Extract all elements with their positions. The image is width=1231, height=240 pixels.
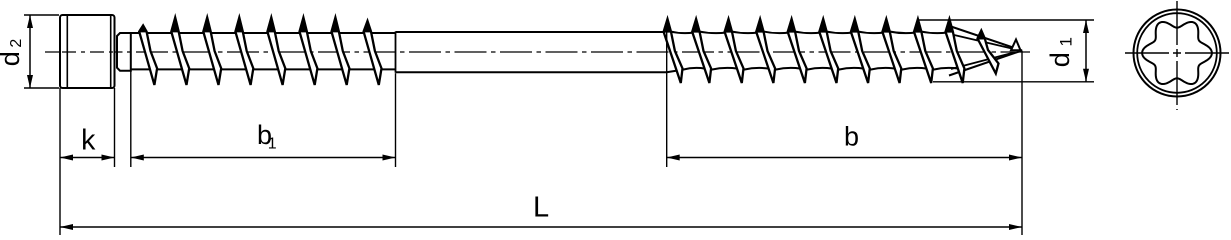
torx view inner circle (1137, 13, 1217, 93)
tip taper root bottom line (951, 53, 1014, 70)
svg-text:b: b (844, 122, 859, 152)
dimension line d1 (1085, 20, 1087, 82)
thread b flight 2 (692, 19, 711, 83)
torx recess 6-lobe profile (1142, 22, 1212, 84)
dimension line d2 (29, 15, 31, 88)
svg-text:1: 1 (1057, 37, 1076, 46)
thread b root line top (scalloped) (667, 31, 952, 33)
thread b flight 1 (664, 19, 683, 83)
centerline (screw axis) (45, 51, 1030, 53)
thread b1 end line (395, 32, 397, 73)
arrow L left (60, 224, 73, 230)
thread b flight 4 (756, 19, 775, 83)
head chamfer line left (66, 16, 68, 88)
extension line tip (b/L) (1021, 51, 1023, 236)
thread b flight 5 (788, 19, 807, 83)
arrow k right (102, 155, 115, 161)
extension line d2 bottom (24, 87, 59, 89)
thread b1 flight 2 (171, 18, 189, 85)
head chamfer line right (110, 16, 112, 88)
screw head outline (60, 15, 115, 88)
thread b flight 10 (946, 19, 965, 83)
arrow b left (667, 155, 680, 161)
extension line thread b1 end (395, 73, 397, 167)
torx crosshair vertical (1176, 1, 1178, 110)
svg-text:L: L (533, 192, 549, 224)
arrow d2 bottom (27, 75, 33, 88)
svg-text:d: d (0, 51, 25, 66)
centerline across head (62, 51, 114, 53)
svg-text:d: d (1045, 52, 1075, 67)
arrow b1 right (383, 155, 396, 161)
thread b flight 7 (851, 19, 870, 83)
torx view outer circle (1134, 10, 1221, 97)
tip taper root top line (952, 35, 1014, 50)
tip taper crest top line (948, 26, 1022, 51)
arrow b1 left (131, 155, 144, 161)
taper flight 1 (978, 31, 999, 74)
shank top line (396, 31, 667, 33)
thread b1 root line top (131, 32, 396, 34)
extension line d1 bottom (933, 81, 1094, 83)
extension line thread b1 start (130, 71, 132, 167)
thread b root line bottom (scalloped) (667, 68, 959, 72)
extension line thread b start (666, 20, 668, 167)
thread b flight 9 (914, 19, 933, 83)
dimension line b1 (131, 157, 396, 159)
extension line d1 top (918, 19, 1094, 21)
dimension line b (667, 157, 1022, 159)
arrow d2 top (27, 15, 33, 28)
thread b1 flight 6 (300, 18, 318, 85)
neck flange (117, 33, 131, 71)
taper flight 2 (1011, 40, 1021, 51)
thread b flight 8 (882, 19, 901, 83)
arrow k left (60, 155, 73, 161)
thread b1 flight 3 (203, 18, 221, 85)
extension line d2 top (24, 14, 59, 16)
svg-text:2: 2 (8, 39, 25, 48)
torx crosshair horizontal (1125, 52, 1229, 54)
arrow L right (1009, 224, 1022, 230)
thread b flight 3 (725, 19, 744, 83)
tip taper crest bottom line (949, 51, 1022, 76)
thread b1 flight 4 (235, 18, 253, 85)
thread b flight 6 (819, 19, 838, 83)
dimension line k (60, 157, 115, 159)
arrow d1 top (1083, 20, 1089, 33)
shank bottom line (396, 71, 667, 73)
dimension line L (60, 226, 1022, 228)
thread b1 flight 7 (332, 18, 350, 85)
thread b1 flight 1 (139, 26, 157, 85)
extension line head right (k) (114, 88, 116, 167)
svg-text:1: 1 (268, 135, 277, 152)
arrow d1 bottom (1083, 69, 1089, 82)
svg-text:k: k (81, 125, 96, 157)
arrow b right (1009, 155, 1022, 161)
extension line head left (k/L) (59, 88, 61, 235)
thread b1 flight 8 (364, 21, 382, 85)
thread b1 root line bottom (131, 68, 396, 70)
thread b1 flight 5 (267, 18, 285, 85)
